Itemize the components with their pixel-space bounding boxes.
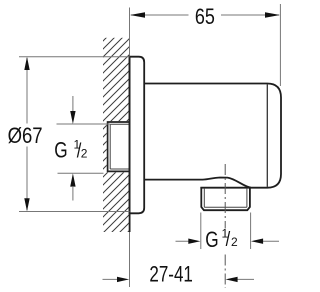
dim G1/2 outlet: arrows <box>188 239 200 244</box>
dim 27-41: lines <box>103 278 255 280</box>
svg-text:/: / <box>226 228 231 251</box>
dim Ø67: arrows <box>24 57 29 70</box>
dim 65: line <box>131 14 279 16</box>
svg-text:65: 65 <box>195 4 215 29</box>
wall face line (thin full extension) <box>129 8 131 288</box>
dim G1/2 outlet: extension lines <box>201 213 251 250</box>
dim G1/2 wall: extension lines <box>57 124 111 173</box>
socket outer outline <box>108 122 130 171</box>
wall hatching <box>103 38 129 232</box>
dim G1/2 wall: lines <box>72 96 74 201</box>
wall face dark segment (against flange and below) <box>129 56 131 232</box>
socket thread inner lines <box>110 124 129 169</box>
dim 27-41: arrows <box>117 277 129 282</box>
dim 65: extension line right <box>279 4 281 86</box>
dim G1/2 wall: arrows <box>70 111 75 124</box>
G1/2 socket hole (white cutout in wall) <box>107 121 130 172</box>
dim Ø67: extension lines <box>19 57 130 212</box>
flange <box>130 57 145 214</box>
outlet nipple <box>200 187 250 210</box>
svg-text:G: G <box>54 138 67 163</box>
svg-text:2: 2 <box>231 235 238 249</box>
svg-text:G: G <box>205 227 218 252</box>
end face tangent line <box>266 84 268 187</box>
centerline of outlet <box>224 164 226 288</box>
svg-text:Ø67: Ø67 <box>8 123 43 148</box>
dim G1/2 wall: text <box>54 138 88 163</box>
dim 65: arrows <box>130 12 145 18</box>
dim G1/2 outlet: lines <box>176 240 280 242</box>
svg-text:27-41: 27-41 <box>149 262 193 287</box>
dim Ø67: line <box>26 58 28 210</box>
body <box>144 84 281 188</box>
dim G1/2 outlet: text <box>205 227 238 252</box>
svg-text:2: 2 <box>81 147 88 161</box>
